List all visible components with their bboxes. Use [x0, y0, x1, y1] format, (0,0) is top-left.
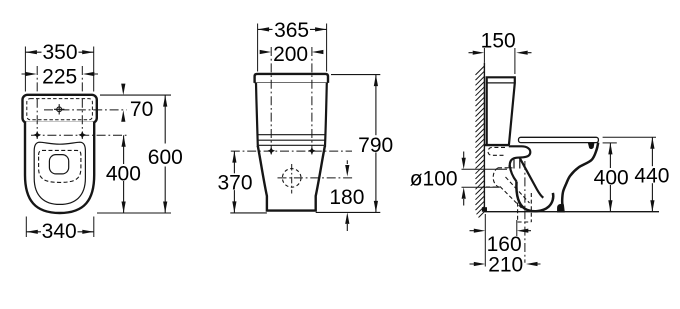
svg-text:790: 790 [358, 134, 393, 157]
svg-text:210: 210 [488, 254, 523, 277]
svg-text:200: 200 [273, 43, 308, 66]
svg-text:70: 70 [130, 98, 153, 121]
svg-text:400: 400 [106, 162, 141, 185]
svg-text:365: 365 [274, 19, 309, 42]
svg-text:600: 600 [148, 146, 183, 169]
svg-text:340: 340 [42, 220, 77, 243]
svg-text:440: 440 [634, 165, 669, 188]
svg-text:225: 225 [42, 66, 77, 89]
svg-text:400: 400 [594, 166, 629, 189]
svg-text:370: 370 [217, 171, 252, 194]
svg-text:ø100: ø100 [410, 168, 458, 191]
svg-text:350: 350 [42, 41, 77, 64]
svg-text:180: 180 [329, 186, 364, 209]
svg-text:150: 150 [481, 29, 516, 52]
